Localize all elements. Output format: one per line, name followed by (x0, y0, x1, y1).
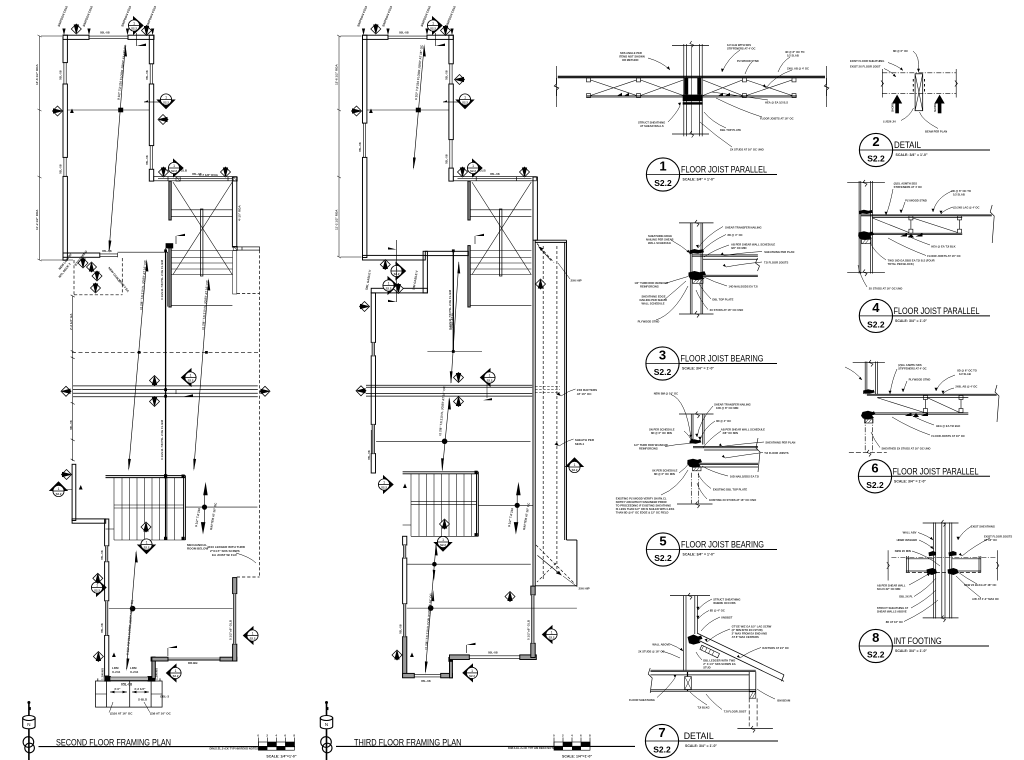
left wall (363, 35, 367, 257)
svg-text:05L-08: 05L-08 (59, 164, 63, 174)
svg-text:8D @ 6" OC: 8D @ 6" OC (893, 49, 908, 53)
svg-text:FLOOR SHEATHING: FLOOR SHEATHING (629, 698, 655, 702)
detail 8 bubble (859, 629, 989, 662)
blobs top (929, 551, 937, 556)
svg-text:REINFORCING: REINFORCING (640, 285, 659, 289)
interior line y110 (367, 109, 449, 111)
svg-text:05L-08: 05L-08 (367, 450, 371, 460)
svg-text:TJI FLOOR JOIST: TJI FLOOR JOIST (724, 710, 747, 714)
corner node plan3 (448, 657, 453, 662)
svg-text:U-244: U-244 (112, 670, 121, 674)
span arrow A4m (425, 543, 438, 674)
half arrow lower (466, 643, 475, 653)
header wall GLB (453, 177, 536, 181)
leaders (884, 51, 938, 129)
top wall (63, 35, 154, 39)
svg-text:DBL 2X PL: DBL 2X PL (899, 595, 913, 599)
svg-text:4'-2 1/2": 4'-2 1/2" (134, 687, 146, 691)
svg-text:AT 16" OC: AT 16" OC (577, 392, 593, 396)
svg-text:SCALE: 3/4" = 1'-0": SCALE: 3/4" = 1'-0" (682, 367, 714, 371)
hatch block (693, 279, 704, 284)
svg-text:8X PER SCHEDULE: 8X PER SCHEDULE (652, 469, 677, 473)
svg-text:NEW 2X BLKG AT 48" OC: NEW 2X BLKG AT 48" OC (964, 583, 997, 587)
svg-text:NEW BM @ 16" OC: NEW BM @ 16" OC (654, 392, 678, 396)
svg-text:TJI FLOOR JOISTS: TJI FLOOR JOISTS (764, 261, 789, 265)
svg-text:8D @ 6" OC TO: 8D @ 6" OC TO (951, 189, 971, 193)
span arrow A1m upper room (413, 44, 426, 170)
svg-text:STIFFENERS AT 4' OC: STIFFENERS AT 4' OC (894, 185, 922, 189)
svg-text:05L-08: 05L-08 (490, 172, 500, 176)
svg-text:SCALE: 3/4" = 1'-0": SCALE: 3/4" = 1'-0" (895, 319, 927, 323)
svg-text:(2) 2X6 LAG @ 4' OC: (2) 2X6 LAG @ 4' OC (953, 206, 979, 210)
corner node (151, 657, 156, 662)
span arrow A5 at stair (185, 482, 257, 535)
left dim string (370, 430, 372, 462)
svg-text:SHEATHING EDGE: SHEATHING EDGE (648, 234, 672, 238)
svg-text:8D @ 6" OC TO: 8D @ 6" OC TO (957, 369, 977, 373)
blobs (859, 210, 873, 215)
svg-text:3: 3 (659, 348, 666, 363)
svg-text:PLYWOOD STND: PLYWOOD STND (905, 199, 927, 203)
detail 6 bubble (858, 460, 990, 493)
svg-text:HEA @ EA TJI BLK: HEA @ EA TJI BLK (936, 424, 960, 428)
svg-text:U-244: U-244 (130, 670, 139, 674)
svg-text:SCALE: 3/4" = 1'-0": SCALE: 3/4" = 1'-0" (895, 649, 927, 653)
bay arrows (110, 691, 149, 694)
span arrow A4 lower room (127, 550, 138, 671)
svg-text:TOTAL PER BLOCK): TOTAL PER BLOCK) (888, 262, 914, 266)
stub wall (237, 247, 260, 250)
svg-text:8: 8 (872, 630, 879, 645)
svg-text:EXIST 2X FLOOR JOIST: EXIST 2X FLOOR JOIST (850, 65, 881, 69)
svg-text:ITEMS NOT SHOWN: ITEMS NOT SHOWN (619, 55, 645, 59)
roof strip right (533, 240, 567, 586)
svg-text:S2.2: S2.2 (654, 553, 672, 563)
svg-text:THAN 8D @ 6" OC EDGE & 12" OC: THAN 8D @ 6" OC EDGE & 12" OC FIELD (616, 511, 669, 515)
svg-text:OR METHOD: OR METHOD (622, 58, 638, 62)
hanger bowties (900, 233, 922, 238)
svg-text:1.2W/M5: 1.2W/M5 (155, 668, 159, 680)
svg-text:(2)GL ASMTH SDS: (2)GL ASMTH SDS (894, 182, 918, 186)
svg-text:16D NAILS/SDS EA TJI: 16D NAILS/SDS EA TJI (730, 475, 759, 479)
svg-text:STUD: STUD (703, 666, 710, 670)
svg-text:NAILING PER SHEAR: NAILING PER SHEAR (640, 298, 668, 302)
svg-text:LUS26 JH: LUS26 JH (883, 120, 896, 124)
span arrow mid room plan3 (441, 397, 451, 471)
svg-text:05L-08: 05L-08 (421, 679, 431, 683)
svg-text:3 1/2x11 7/8 PSL 2.0E FL BM: 3 1/2x11 7/8 PSL 2.0E FL BM (448, 289, 452, 330)
detail 4 drawing (847, 180, 994, 291)
svg-text:6'-7 1/8" ROA: 6'-7 1/8" ROA (199, 173, 219, 177)
svg-text:1/2 SLAB: 1/2 SLAB (959, 372, 971, 376)
svg-text:SHORE: SHORE (892, 103, 895, 112)
stair shaft left wall (169, 181, 171, 220)
svg-text:2X STUDS AT 16" OC UNO: 2X STUDS AT 16" OC UNO (730, 148, 764, 152)
svg-text:2: 2 (872, 134, 879, 149)
svg-text:8D @ 4" OC: 8D @ 4" OC (716, 419, 731, 423)
interior line y441 (376, 440, 530, 442)
svg-text:13'-6 1/2" ROA: 13'-6 1/2" ROA (335, 64, 339, 85)
svg-text:HDBR WASHBD: HDBR WASHBD (897, 538, 918, 542)
svg-text:FLOOR JOIST PARALLEL: FLOOR JOIST PARALLEL (894, 306, 980, 316)
half arrow near stair (475, 234, 484, 244)
lower-left wall assembly (72, 464, 109, 676)
stair X brace (472, 182, 531, 274)
notch walls (363, 251, 469, 473)
svg-text:SN PER SCHEDULE: SN PER SCHEDULE (649, 428, 675, 432)
svg-text:4D @ 8" OC TO: 4D @ 8" OC TO (785, 50, 805, 54)
svg-text:TJI BLKG: TJI BLKG (697, 706, 709, 710)
long thin line below stub node (165, 248, 167, 251)
svg-text:FLOOR JOIST BEARING: FLOOR JOIST BEARING (681, 540, 764, 550)
flag markers (71, 24, 81, 34)
svg-text:S2.2: S2.2 (654, 178, 672, 188)
svg-text:1.2W/M5: 1.2W/M5 (101, 668, 105, 680)
svg-text:13'-6 1/2" ROA: 13'-6 1/2" ROA (35, 64, 39, 85)
blocking w/X (685, 677, 692, 690)
svg-text:NAILING PER SHEAR: NAILING PER SHEAR (646, 238, 674, 242)
detail 4 bubble (859, 299, 990, 332)
detail 5 drawing (616, 392, 796, 515)
top leader arrows (356, 5, 457, 35)
detail 1 bubble (646, 158, 777, 191)
svg-text:STIFFENERS AT 4' OC: STIFFENERS AT 4' OC (898, 367, 926, 371)
svg-text:4'-10" ROA: 4'-10" ROA (238, 205, 242, 221)
scale bar right (553, 734, 592, 759)
interior lines (407, 563, 531, 565)
svg-text:LDM: LDM (130, 666, 137, 670)
svg-text:SHEATHING PER PLAN: SHEATHING PER PLAN (764, 250, 794, 254)
svg-text:05L-08: 05L-08 (145, 155, 149, 165)
svg-text:SHEATHING EDGE: SHEATHING EDGE (642, 295, 666, 299)
stair box lower (106, 476, 186, 540)
svg-text:5 1/2"x9" GLB: 5 1/2"x9" GLB (527, 619, 531, 640)
svg-text:3 1/2x11 7/8 PSL 2.0E FL BM: 3 1/2x11 7/8 PSL 2.0E FL BM (160, 419, 164, 460)
notch flags (380, 260, 390, 270)
svg-text:05L-08: 05L-08 (488, 651, 498, 655)
svg-text:HEA @ EA 1/2 B.S: HEA @ EA 1/2 B.S (765, 101, 788, 105)
svg-text:05L-08: 05L-08 (102, 249, 112, 253)
svg-text:8D @ 6" OC MIN: 8D @ 6" OC MIN (651, 431, 672, 435)
far-left dim string (38, 35, 74, 261)
leaders (661, 395, 764, 500)
svg-text:2X6L AB @ 4' OC: 2X6L AB @ 4' OC (787, 67, 809, 71)
svg-text:AT SHEAR WALLS: AT SHEAR WALLS (640, 124, 664, 128)
svg-text:05L-08: 05L-08 (445, 154, 449, 164)
svg-text:FLOOR JOIST PARALLEL: FLOOR JOIST PARALLEL (893, 466, 979, 476)
svg-text:DIM.S.EL.2+CK TYP HM REKD NOTE: DIM.S.EL.2+CK TYP HM REKD NOTES (210, 746, 259, 750)
svg-text:WALL ABV: WALL ABV (903, 531, 917, 535)
header wall GLB (154, 177, 237, 181)
leaders (657, 599, 775, 710)
svg-text:S2.2: S2.2 (867, 154, 885, 164)
svg-text:2" MAX FROM EA END AND: 2" MAX FROM EA END AND (732, 632, 767, 636)
svg-text:1/2" THRD ROD W/ANCHR: 1/2" THRD ROD W/ANCHR (634, 281, 668, 285)
svg-text:REINFORCING: REINFORCING (639, 447, 658, 451)
svg-text:DETAIL: DETAIL (894, 140, 921, 150)
svg-text:DBL LEDGER WITH TWO: DBL LEDGER WITH TWO (703, 659, 735, 663)
ledger hatched (700, 645, 720, 658)
stair shaft left wall (468, 181, 470, 220)
span arrow stair right A6m (478, 482, 533, 535)
span arrow A2 (128, 259, 148, 471)
svg-text:8D @ 6" OC MIN: 8D @ 6" OC MIN (654, 472, 675, 476)
svg-text:EXIST SHEATHING: EXIST SHEATHING (971, 525, 995, 529)
PSL beam (452, 251, 454, 353)
detail 8 drawing: int footing (877, 520, 1013, 624)
stair box lower (403, 472, 479, 537)
interior line y110 (67, 109, 149, 111)
svg-text:3/8" OC MIN: 3/8" OC MIN (723, 431, 739, 435)
svg-text:PLYWOOD STND: PLYWOOD STND (909, 378, 931, 382)
blob at top of rafter (688, 635, 703, 645)
svg-text:FLOOR JOISTS AT 16" OC: FLOOR JOISTS AT 16" OC (931, 434, 965, 438)
top wall (363, 35, 454, 39)
svg-text:2X STUDS AT 16" OC UNO: 2X STUDS AT 16" OC UNO (869, 287, 903, 291)
svg-text:DETAIL: DETAIL (684, 731, 714, 741)
deck rotated notes (58, 249, 131, 294)
svg-text:WHERE OCCURS: WHERE OCCURS (713, 601, 736, 605)
svg-text:STRUCT SHEATHING: STRUCT SHEATHING (713, 598, 740, 602)
X bridging (591, 80, 793, 96)
svg-text:06L-08: 06L-08 (69, 420, 73, 430)
svg-text:2X STUDS @ 16" OC: 2X STUDS @ 16" OC (638, 650, 664, 654)
stair treads (470, 210, 531, 305)
svg-text:05L-08: 05L-08 (121, 683, 132, 687)
svg-text:SHEATHING PER PLAN: SHEATHING PER PLAN (765, 441, 795, 445)
svg-text:2'-2 1/2" EA: 2'-2 1/2" EA (69, 313, 73, 330)
hardware blobs (690, 249, 705, 254)
svg-text:TWO 16D GA.DBO EA TJI B.S (FOU: TWO 16D GA.DBO EA TJI B.S (FOUR (888, 259, 935, 263)
flag 3/S2.2 at header plan3 (467, 160, 482, 177)
svg-text:EXIST FLOOR JOISTS: EXIST FLOOR JOISTS (984, 535, 1012, 539)
roof bottom square (535, 540, 577, 586)
bay window (96, 678, 163, 707)
svg-text:2X6 HIP: 2X6 HIP (579, 587, 590, 591)
half arrow lower (168, 646, 177, 656)
detail 6 drawing (845, 360, 999, 457)
svg-text:PLYWOOD STND: PLYWOOD STND (737, 59, 759, 63)
svg-text:8D AT 16" OC: 8D AT 16" OC (886, 620, 903, 624)
detail 5 bubble (646, 533, 777, 566)
interior line y608 (109, 608, 233, 610)
svg-text:SHEAR TRANSFER NAILING: SHEAR TRANSFER NAILING (725, 226, 762, 230)
dashed joist line (72, 351, 258, 353)
hip arrow top (539, 247, 552, 261)
wall below stair (403, 536, 407, 677)
svg-text:DR.BB: DR.BB (188, 661, 198, 665)
mid flags (378, 476, 393, 493)
detail 3 drawing: floor joist bearing (634, 220, 794, 324)
svg-text:11'-2 1/2" ROA: 11'-2 1/2" ROA (335, 209, 339, 230)
svg-text:1/2 SLAB: 1/2 SLAB (787, 54, 799, 58)
svg-text:FLOOR JOISTS AT 16" OC: FLOOR JOISTS AT 16" OC (760, 117, 794, 121)
svg-text:6: 6 (871, 460, 878, 475)
span arrow notch room (450, 261, 460, 384)
svg-text:UNOBST: UNOBST (721, 616, 733, 620)
floor band (891, 557, 996, 559)
svg-text:4'-0": 4'-0" (114, 687, 121, 691)
leaders + notes (648, 50, 792, 147)
node square at stub (166, 243, 174, 248)
svg-text:AB PER SHEAR WALL SCHEDULE: AB PER SHEAR WALL SCHEDULE (731, 243, 775, 247)
svg-text:SEIS.1: SEIS.1 (575, 442, 585, 446)
svg-text:S-BLD: S-BLD (138, 698, 148, 702)
half arrow near stair top (176, 234, 185, 244)
svg-text:8D @ 4" OC: 8D @ 4" OC (710, 609, 725, 613)
svg-text:INT FOOTING: INT FOOTING (894, 636, 942, 646)
svg-text:SDS ANGLE PER: SDS ANGLE PER (620, 51, 642, 55)
right wall upper room (449, 35, 453, 181)
svg-text:S2.2: S2.2 (654, 367, 672, 377)
bottom flange wedges (617, 93, 730, 96)
svg-text:DIM.S.EL.2+CK TYP HM REKD NOTE: DIM.S.EL.2+CK TYP HM REKD NOTES (508, 746, 557, 750)
svg-text:2X6L AB @ 4' OC: 2X6L AB @ 4' OC (955, 385, 977, 389)
svg-text:TO PROCEEDING IF EXISTING SHEA: TO PROCEEDING IF EXISTING SHEATHING (616, 504, 671, 508)
svg-text:S2.2: S2.2 (866, 480, 884, 490)
right wall of shaft (533, 177, 537, 240)
right wall upper room (149, 35, 153, 181)
triple dashed rafter lines at beam level (535, 387, 560, 393)
svg-text:5: 5 (659, 534, 666, 549)
bottom wall upper-left room (63, 253, 118, 257)
svg-text:LDM: LDM (112, 666, 119, 670)
detail 7 bubble (645, 724, 778, 757)
span arrow A3 (193, 278, 210, 471)
svg-text:FLOOR JOIST PARALLEL: FLOOR JOIST PARALLEL (681, 165, 767, 175)
svg-text:S2.2: S2.2 (867, 650, 885, 660)
floor lines (692, 255, 758, 277)
svg-text:WALL ABOVE: WALL ABOVE (652, 643, 670, 647)
svg-text:STRUCT SHEATHING AT: STRUCT SHEATHING AT (877, 606, 909, 610)
svg-text:GT'GE WIZ GA 8.5" LAG SCRW: GT'GE WIZ GA 8.5" LAG SCRW (732, 625, 772, 629)
floor band (651, 670, 756, 691)
svg-text:(2)16 AT 16" OC: (2)16 AT 16" OC (110, 712, 133, 716)
svg-text:11'-2 1/2" ROA: 11'-2 1/2" ROA (35, 209, 39, 230)
svg-text:A35 AT 4'-0" MAX OC: A35 AT 4'-0" MAX OC (972, 597, 999, 601)
top leader arrows (57, 5, 158, 35)
joist stiffener squares (587, 78, 797, 98)
svg-text:EA JOIST W/ FLR: EA JOIST W/ FLR (212, 553, 238, 557)
corner rotated notes bottom-left room (58, 262, 72, 279)
far-left dim string (337, 35, 362, 258)
svg-text:05L-08: 05L-08 (59, 70, 63, 80)
leaders (656, 227, 762, 321)
quad beam line (73, 386, 258, 397)
left wall (63, 35, 67, 260)
svg-text:EXISTING PLYWOOD VERIFY SN RN.: EXISTING PLYWOOD VERIFY SN RN.CL (616, 497, 667, 501)
svg-text:NEW 2X MIN: NEW 2X MIN (895, 549, 911, 553)
blocking plates (683, 78, 703, 105)
bottom walls (403, 586, 537, 678)
svg-text:SCH 6 32" OC MIN: SCH 6 32" OC MIN (877, 587, 900, 591)
rotated texts left dim string (71, 295, 75, 461)
svg-text:16D @ 8" OC MIN: 16D @ 8" OC MIN (716, 406, 738, 410)
svg-text:TJI FLOOR JOISTS: TJI FLOOR JOISTS (764, 451, 789, 455)
scale bar left (257, 734, 296, 759)
leaders (904, 527, 990, 622)
svg-text:SCALE: 3/4" = 1'-0": SCALE: 3/4" = 1'-0" (685, 744, 717, 748)
svg-text:AB PER SHEAR WALL: AB PER SHEAR WALL (877, 584, 906, 588)
svg-text:RAFTERS AT 24" OC: RAFTERS AT 24" OC (762, 646, 789, 650)
svg-text:DBL TOP PLATE: DBL TOP PLATE (712, 298, 733, 302)
blobs (689, 439, 701, 444)
svg-text:BEAM PER PLAN: BEAM PER PLAN (925, 130, 947, 134)
dashed deck below room (74, 258, 122, 295)
svg-text:1: 1 (659, 159, 666, 174)
stair treads (171, 210, 232, 305)
svg-text:05L-08: 05L-08 (399, 624, 403, 634)
leaders (845, 367, 955, 448)
stair stringer (201, 209, 203, 276)
stair stringer (500, 209, 502, 276)
svg-text:WALL SCHEDULE: WALL SCHEDULE (648, 241, 671, 245)
svg-text:FLOOR JOIST BEARING: FLOOR JOIST BEARING (681, 354, 764, 364)
roof notes (575, 388, 597, 446)
svg-text:STIFFENERS AT 4' OC: STIFFENERS AT 4' OC (727, 47, 755, 51)
svg-text:SHEAR TRANSFER NAILING: SHEAR TRANSFER NAILING (714, 403, 751, 407)
svg-text:2X STUDS AT 16" OC UNO: 2X STUDS AT 16" OC UNO (710, 308, 744, 312)
svg-text:05L-08: 05L-08 (445, 70, 449, 80)
svg-text:AT 8" MAX CENTERS: AT 8" MAX CENTERS (732, 635, 759, 639)
svg-text:NOTIFY ARCHITECT/ ENGINEER PRI: NOTIFY ARCHITECT/ ENGINEER PRIOR (616, 500, 667, 504)
leader line with half arrows (388, 240, 397, 302)
stair open-below X brace (173, 182, 232, 274)
svg-text:DBL TOP PLATE: DBL TOP PLATE (720, 128, 741, 132)
svg-text:7: 7 (658, 725, 665, 740)
svg-text:IS LESS THAN 1/2" OR IS NAILED: IS LESS THAN 1/2" OR IS NAILED WITH LESS (616, 507, 675, 511)
detail 1 drawing: floor joist parallel (554, 41, 829, 152)
svg-text:(2)6 AT 16" OC: (2)6 AT 16" OC (150, 712, 172, 716)
svg-text:AT 16" OC: AT 16" OC (984, 538, 997, 542)
svg-text:SCALE: 3/4" = 1'-0": SCALE: 3/4" = 1'-0" (896, 153, 928, 157)
svg-text:1/2" THRD ROD W/ANCHR: 1/2" THRD ROD W/ANCHR (634, 443, 668, 447)
sloped rafter (698, 634, 784, 682)
PSL beam line (165, 251, 167, 541)
leaders (858, 189, 953, 287)
stair treads lower (114, 478, 185, 540)
detail 2 bubble (859, 133, 990, 166)
deck markers (92, 271, 102, 281)
svg-text:05L-08: 05L-08 (100, 550, 104, 560)
svg-text:S2.2: S2.2 (653, 745, 671, 755)
north arrow left (23, 701, 35, 760)
svg-text:ROOM BELOW: ROOM BELOW (187, 547, 208, 551)
svg-text:14D NAILS/SDS EA TJI: 14D NAILS/SDS EA TJI (729, 285, 758, 289)
dashed boundary right (237, 250, 260, 577)
svg-text:4: 4 (872, 300, 880, 315)
svg-text:EXIST FLOOR SHEATHING: EXIST FLOOR SHEATHING (850, 59, 884, 63)
right member (749, 672, 756, 692)
right wall mid (232, 177, 236, 247)
stair bottom landing hatch (106, 528, 115, 530)
svg-text:2" X 4.5" SDS SCRWS EA: 2" X 4.5" SDS SCRWS EA (703, 662, 736, 666)
svg-text:2X6 HIP: 2X6 HIP (571, 279, 582, 283)
stair right note (187, 543, 246, 557)
detail 3 bubble (646, 347, 777, 380)
north arrow middle (320, 701, 332, 760)
svg-text:3 1/2x11 7/8 PSL 2.0E FL BM: 3 1/2x11 7/8 PSL 2.0E FL BM (160, 259, 164, 300)
side breaks (887, 550, 889, 580)
svg-text:SCALE: 3/4" = 1'-0": SCALE: 3/4" = 1'-0" (683, 178, 715, 182)
svg-text:STRUCT SHEATHING: STRUCT SHEATHING (638, 121, 665, 125)
bottom walls and bay (105, 578, 237, 682)
shore arrows (892, 95, 945, 114)
svg-text:GBL-3: GBL-3 (160, 695, 169, 699)
svg-text:EXISTING DBL TOP PLATE: EXISTING DBL TOP PLATE (713, 488, 748, 492)
end breaks (554, 78, 558, 96)
flags top (371, 24, 381, 34)
